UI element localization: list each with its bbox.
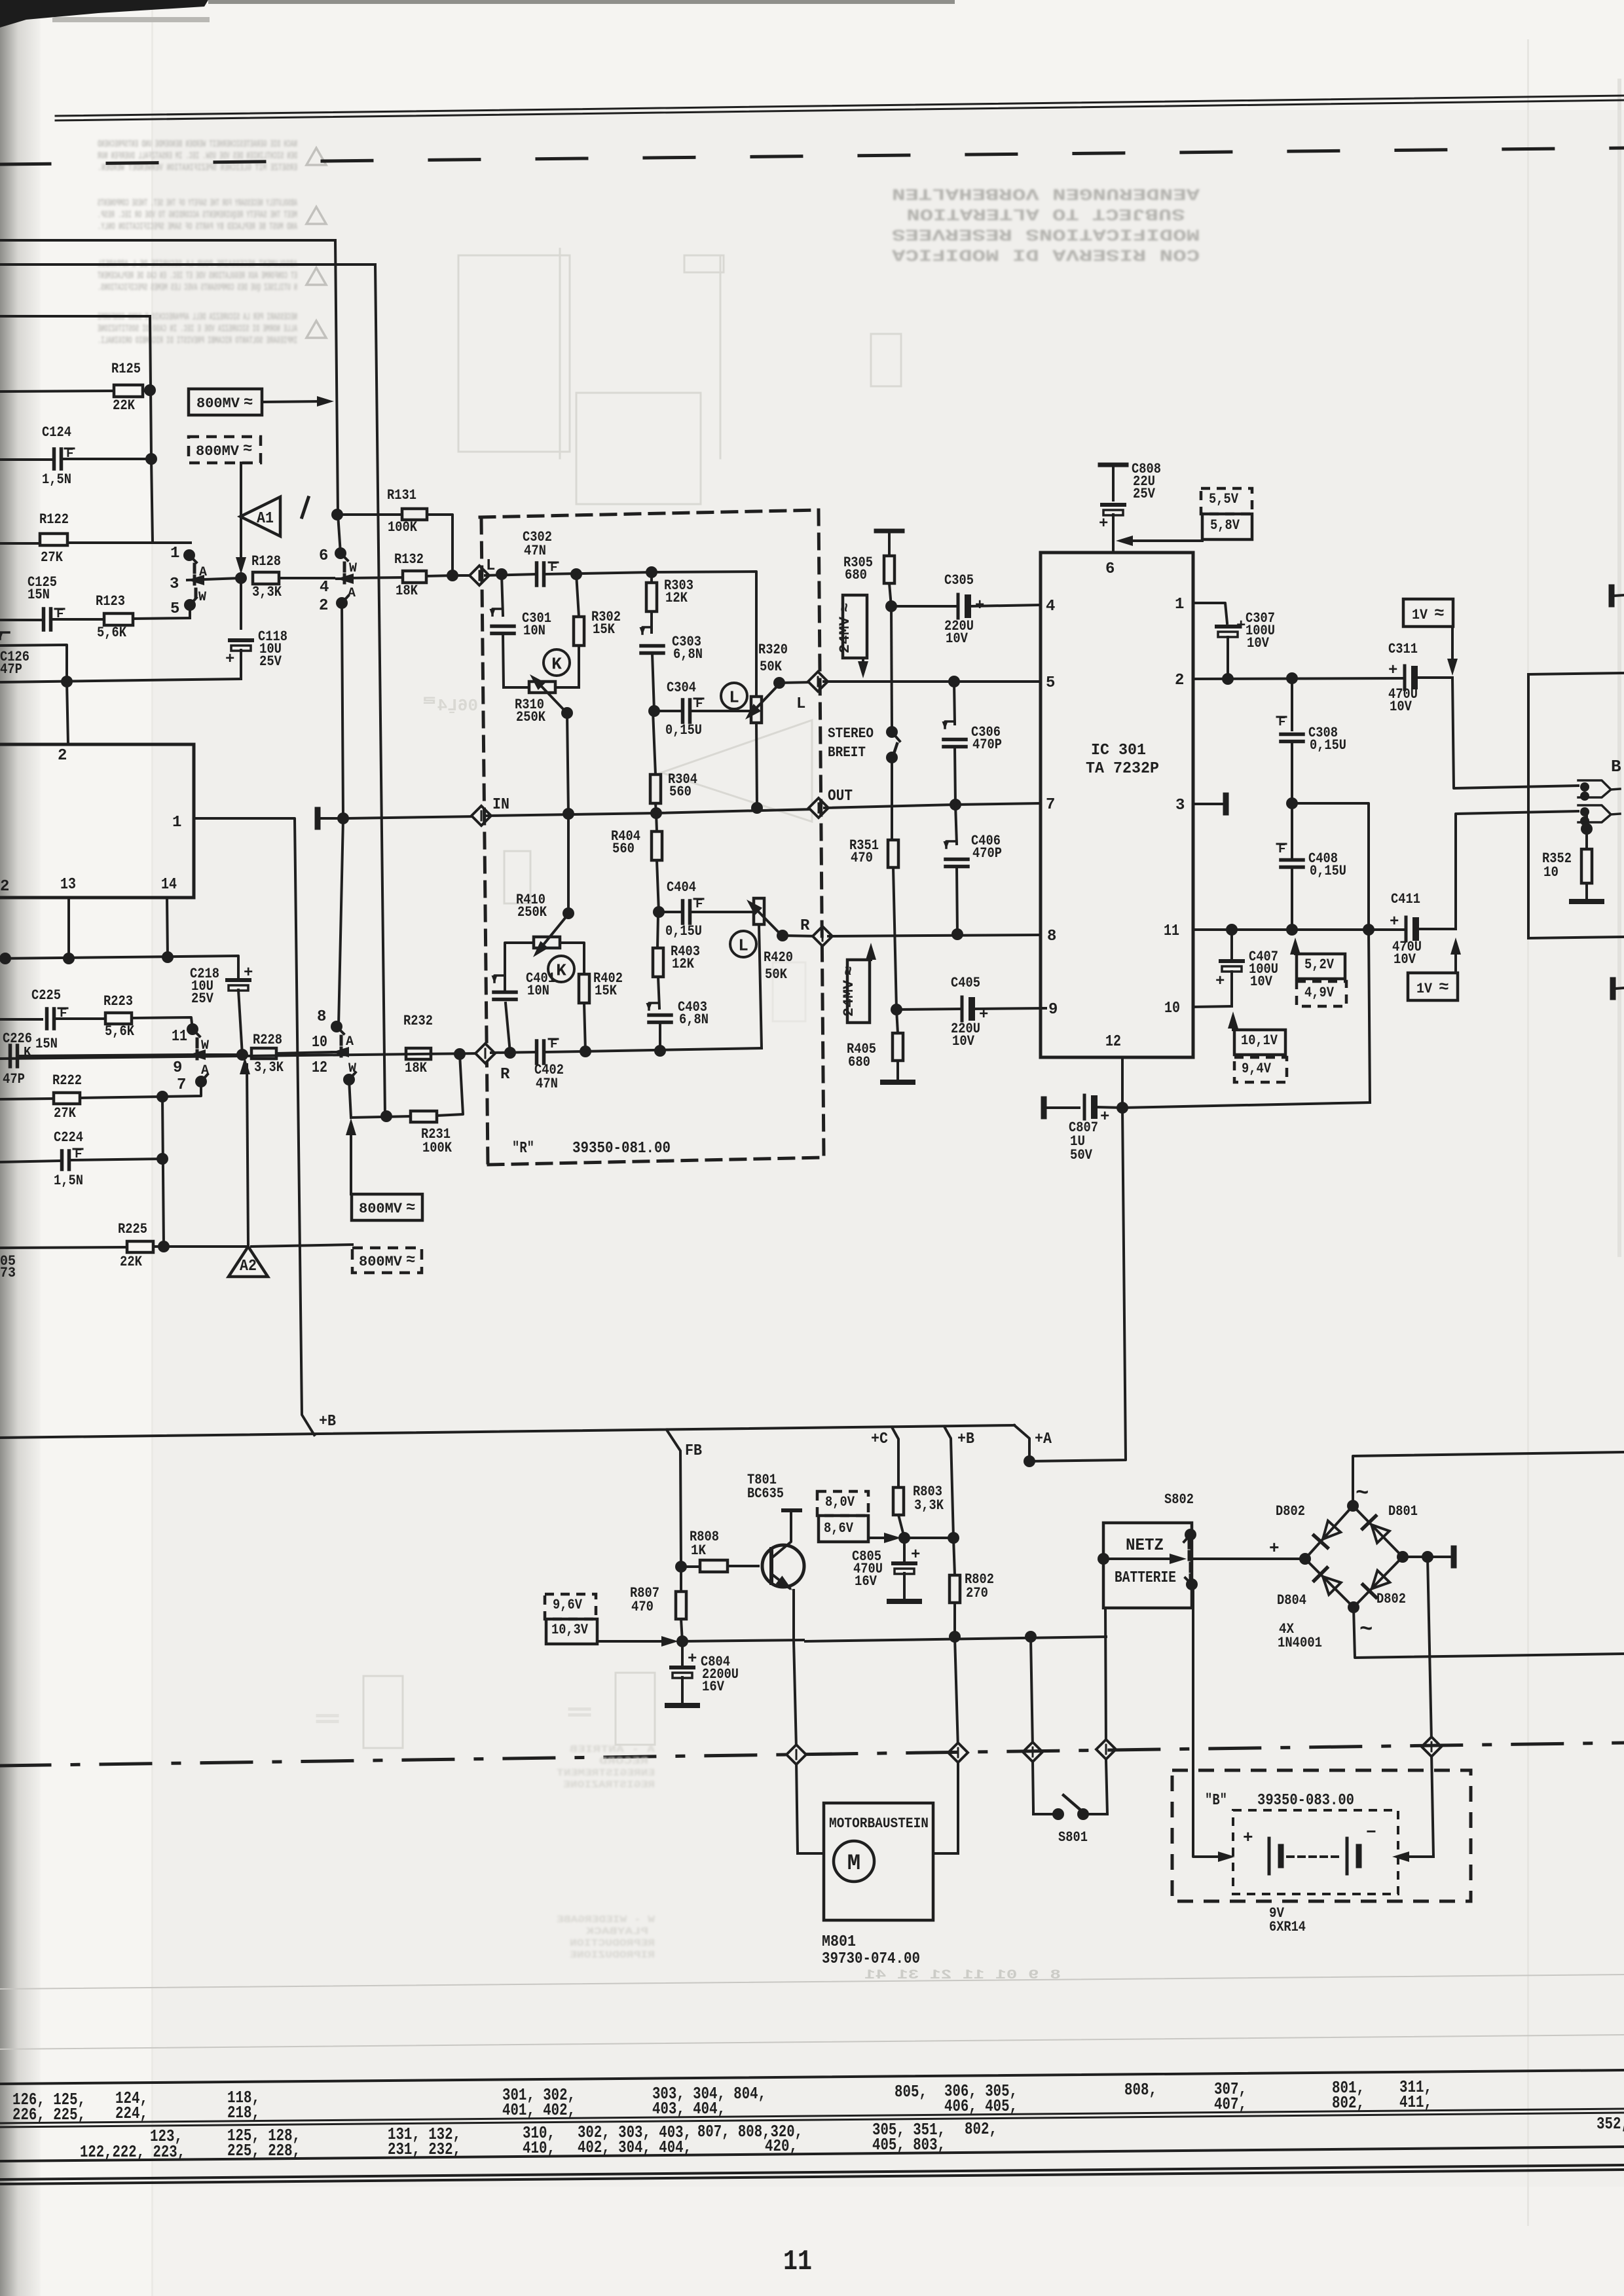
capacitor C804 (667, 1641, 739, 1705)
index row 3 (150, 2114, 1624, 2146)
svg-text:5,8V: 5,8V (1210, 517, 1240, 534)
node: C308/C408 mid (1286, 797, 1298, 809)
svg-text:+C: +C (871, 1430, 888, 1448)
svg-text:410,: 410, (523, 2138, 555, 2158)
capacitor C403 (646, 999, 709, 1051)
svg-text:18K: 18K (405, 1060, 428, 1076)
svg-text:15K: 15K (593, 621, 616, 638)
svg-text:3,3K: 3,3K (252, 584, 282, 600)
svg-text:REGISTRAZIONE: REGISTRAZIONE (563, 1779, 655, 1791)
svg-text:ALLE NORME DI SICUREZZA VDE E: ALLE NORME DI SICUREZZA VDE E IEC. IN CA… (98, 323, 297, 335)
svg-text:27K: 27K (41, 549, 64, 566)
svg-text:5,6K: 5,6K (97, 625, 127, 641)
svg-text:≈: ≈ (1439, 977, 1449, 997)
test box 1V (top) (1403, 599, 1458, 676)
svg-text:10V: 10V (946, 630, 969, 647)
svg-text:16V: 16V (702, 1679, 725, 1695)
svg-text:+: + (1099, 515, 1108, 533)
svg-text:560: 560 (612, 841, 635, 857)
svg-text:R223: R223 (103, 993, 133, 1010)
svg-text:OUT: OUT (828, 788, 853, 805)
svg-text:8: 8 (317, 1008, 326, 1026)
svg-text:10V: 10V (952, 1033, 975, 1049)
svg-text:CON RISERVA DI MODIFICA: CON RISERVA DI MODIFICA (892, 245, 1200, 264)
svg-text:IC 301: IC 301 (1091, 742, 1146, 759)
svg-text:"R": "R" (512, 1140, 534, 1157)
label C126 47P (0, 649, 29, 678)
svg-text:808,: 808, (1124, 2080, 1157, 2100)
module label "R" 39350-081.00 (512, 1140, 671, 1157)
svg-text:11: 11 (172, 1028, 187, 1046)
svg-text:403, 404,: 403, 404, (652, 2099, 726, 2119)
svg-text:27K: 27K (54, 1105, 77, 1121)
svg-text:1: 1 (1175, 596, 1184, 613)
test box 24MV (R) (841, 943, 876, 1023)
svg-text:10V: 10V (1250, 974, 1273, 990)
capacitor C807 (1044, 1095, 1122, 1163)
svg-text:50V: 50V (1070, 1147, 1093, 1163)
svg-text:R125: R125 (111, 361, 141, 377)
svg-text:ABSOLUTELY NECESSARY FOR THE S: ABSOLUTELY NECESSARY FOR THE SAFETY OF T… (98, 198, 297, 209)
svg-text:D802: D802 (1276, 1503, 1305, 1520)
svg-text:470: 470 (631, 1599, 654, 1615)
svg-text:250K: 250K (516, 709, 546, 725)
svg-text:≈: ≈ (841, 966, 858, 975)
svg-text:5: 5 (170, 600, 179, 618)
svg-text:800MV: 800MV (359, 1201, 403, 1217)
svg-text:8,6V: 8,6V (824, 1520, 854, 1537)
capacitor C407 (1193, 930, 1278, 1007)
svg-text:R320: R320 (758, 642, 788, 658)
svg-text:24MV: 24MV (837, 616, 853, 653)
IC U301 TA7232P (1041, 553, 1193, 1057)
wire: C126 entry (0, 632, 67, 682)
node: L line R131 junction (447, 570, 458, 581)
page number 11 (783, 2246, 812, 2278)
potentiometer R420 (747, 898, 793, 1048)
ghost mirrored legend text (557, 1744, 655, 1961)
node L (module boundary) (456, 557, 495, 585)
capacitor C808 (1099, 461, 1161, 553)
wire: pin1 to C307 (1193, 603, 1227, 623)
capacitor C218 (0, 951, 253, 1055)
svg-text:2: 2 (0, 878, 9, 896)
svg-text:−: − (1366, 1823, 1376, 1842)
svg-text:8 9 01 11 21 31 41: 8 9 01 11 21 31 41 (864, 1968, 1061, 1983)
wire: pin2 line (1193, 672, 1404, 685)
svg-text:401, 402,: 401, 402, (502, 2100, 576, 2120)
capacitor C311 (1388, 641, 1452, 715)
svg-text:N UTILISEZ QUE DES COMPOSANTS: N UTILISEZ QUE DES COMPOSANTS AVEC LES M… (98, 282, 297, 293)
diode D804 (bottom-left) (1314, 1568, 1341, 1595)
bridge rectifier wires (1305, 1506, 1403, 1607)
wire: IN/OUT line (347, 788, 1040, 826)
test box 800MV (solid, R) (346, 1118, 422, 1220)
resistor R222 (0, 1072, 201, 1121)
svg-text:C311: C311 (1388, 641, 1418, 657)
svg-text:≈: ≈ (406, 1199, 415, 1217)
node: C401 junction (504, 1047, 516, 1059)
svg-text:R128: R128 (251, 553, 281, 570)
label: off-page 05/73 (0, 1253, 16, 1281)
index rule 6 (dark double) (0, 2165, 1624, 2184)
resistor R304 (650, 711, 697, 813)
svg-text:12: 12 (312, 1059, 327, 1077)
svg-text:1K: 1K (691, 1542, 707, 1559)
wire: +C tap (871, 1427, 898, 1487)
svg-text:5,2V: 5,2V (1304, 957, 1335, 973)
svg-text:4,9V: 4,9V (1304, 985, 1335, 1001)
svg-text:10: 10 (312, 1034, 327, 1051)
resistor R803 (893, 1484, 944, 1538)
svg-text:1: 1 (172, 814, 181, 831)
wire: pin9 stub (1041, 1007, 1046, 1010)
svg-text:11: 11 (783, 2246, 812, 2278)
wire: L line (485, 572, 756, 697)
svg-text:8,0V: 8,0V (825, 1494, 855, 1510)
wire: +B branch to motor right (933, 1637, 958, 1853)
svg-text:3: 3 (1175, 797, 1185, 814)
wire: emitter down to motor (794, 1640, 824, 1853)
resistor R122 (0, 511, 191, 566)
amplifier A1 (236, 463, 280, 574)
svg-text:BREIT: BREIT (828, 744, 866, 761)
node pin4 line (885, 600, 897, 612)
ghost rotated stamp text (892, 184, 1200, 264)
potentiometer R410 (516, 892, 574, 957)
svg-text:+: + (1236, 617, 1246, 635)
test boxes 8,0V / 8,6V (817, 1491, 901, 1543)
svg-text:ENREGISTREMENT: ENREGISTREMENT (557, 1768, 655, 1779)
svg-text:2: 2 (1175, 672, 1184, 689)
svg-text:NETZ: NETZ (1126, 1535, 1164, 1555)
svg-text:25V: 25V (259, 653, 282, 670)
svg-text:218,: 218, (227, 2103, 260, 2123)
wire: top-left feed C (to R125 column) (0, 316, 153, 542)
switch STEREO/BREIT (828, 606, 900, 840)
svg-text:C304: C304 (667, 680, 696, 696)
svg-text:5,6K: 5,6K (105, 1023, 135, 1040)
node: R320 bottom junction (751, 802, 763, 814)
svg-text:D802: D802 (1376, 1591, 1406, 1607)
labels bridge (1276, 1482, 1418, 1651)
capacitor C405 (896, 975, 1046, 1049)
potentiometer R320 (745, 642, 788, 807)
svg-text:R232: R232 (403, 1013, 433, 1029)
svg-text:A - ANTRIEB: A - ANTRIEB (570, 1744, 655, 1755)
wire: top-left feed A (to 800MV node) (0, 240, 341, 553)
index rule 2 (0, 2035, 1624, 2049)
svg-text:24MV: 24MV (841, 979, 857, 1017)
svg-text:+: + (1390, 913, 1399, 931)
capacitor C406 (944, 805, 1003, 934)
svg-text:IN: IN (492, 796, 509, 814)
svg-text:800MV: 800MV (359, 1254, 403, 1270)
svg-text:L: L (729, 687, 739, 707)
svg-text:R: R (500, 1066, 510, 1084)
svg-text:R420: R420 (764, 949, 793, 966)
svg-text:L: L (738, 936, 748, 955)
svg-text:7: 7 (1046, 796, 1055, 814)
svg-text:12K: 12K (665, 590, 688, 606)
svg-text:R132: R132 (394, 551, 424, 568)
wire: C118 bottom line (0, 679, 241, 682)
transistor Q801 BC635 (747, 1472, 804, 1640)
svg-text:R131: R131 (387, 487, 416, 503)
label MOTORBAUSTEIN (829, 1815, 929, 1832)
node: common R junction (236, 1049, 248, 1061)
ghost pin numbers bottom (864, 1968, 1061, 1983)
svg-text:15K: 15K (595, 983, 618, 999)
svg-text:S802: S802 (1164, 1491, 1194, 1508)
svg-text:0,15U: 0,15U (665, 923, 702, 939)
capacitor C303 (640, 627, 703, 711)
index rule 5 (0, 2147, 1624, 2161)
svg-text:16V: 16V (855, 1573, 877, 1590)
index rule 1 (0, 1975, 1624, 1989)
boundary diamond (S801) (1023, 1742, 1043, 1762)
wire: C408 bypass loop (1292, 803, 1370, 1102)
svg-text:100K: 100K (388, 519, 418, 536)
switch box S802 NETZ/BATTERIE (1098, 1491, 1198, 1608)
wire: head common L to R132 (346, 577, 403, 578)
resistor R405 (847, 1010, 913, 1082)
wire: FB tap (667, 1430, 702, 1567)
IC preamp (partial, pins 1/2/13/14) (0, 744, 194, 898)
node: C403 junction (654, 1045, 666, 1057)
svg-text:ET CONFORME AUX REGULATIONS VD: ET CONFORME AUX REGULATIONS VDE ET IEC. … (98, 270, 297, 282)
resistor R228 (251, 1032, 332, 1076)
svg-text:5,5V: 5,5V (1209, 491, 1239, 507)
boundary diamond (emitter) (786, 1745, 806, 1764)
wire: return line right (1122, 1102, 1370, 1108)
svg-text:MOTORBAUSTEIN: MOTORBAUSTEIN (829, 1815, 929, 1832)
svg-text:K: K (556, 960, 566, 980)
wire: S801 to S802 box (1105, 1608, 1107, 1814)
resistor R808 (675, 1529, 758, 1573)
capacitor C304 (648, 680, 752, 738)
ghost mirrored warning paragraphs (98, 139, 326, 346)
node: C224 column junction (157, 1091, 168, 1247)
wire: +A tap (1014, 1425, 1052, 1467)
wire: R input line (0, 1044, 762, 1084)
svg-text:+: + (688, 1650, 697, 1668)
svg-text:+: + (1269, 1539, 1280, 1558)
resistor R231 (349, 1054, 463, 1156)
svg-text:AND MUST BE REPLACED BY PARTS: AND MUST BE REPLACED BY PARTS OF SAME SP… (98, 221, 297, 232)
svg-text:8: 8 (1047, 928, 1056, 945)
svg-text:13: 13 (60, 876, 76, 894)
wire: preamp pin14 (167, 898, 168, 957)
svg-text:C404: C404 (667, 879, 696, 896)
svg-text:R123: R123 (96, 593, 125, 610)
capacitor C411 (1390, 891, 1456, 968)
svg-text:10N: 10N (527, 983, 549, 999)
boundary diamond (netz) (1096, 1740, 1116, 1759)
svg-text:10V: 10V (1390, 699, 1412, 715)
svg-text:C411: C411 (1391, 891, 1420, 907)
svg-text:+: + (1388, 662, 1397, 680)
svg-text:3: 3 (170, 575, 179, 593)
svg-text:800MV: 800MV (196, 443, 240, 460)
svg-text:11: 11 (1164, 922, 1179, 940)
svg-text:L: L (796, 695, 805, 713)
wire: preamp pin13 (67, 898, 70, 958)
svg-text:"B": "B" (1205, 1792, 1227, 1810)
svg-text:1,5N: 1,5N (54, 1173, 83, 1189)
svg-text:+: + (911, 1546, 920, 1564)
svg-text:7: 7 (177, 1076, 186, 1094)
test boxes 9,6V / 10,3V (545, 1594, 678, 1647)
svg-text:S801: S801 (1058, 1829, 1088, 1846)
svg-text:6: 6 (1105, 560, 1115, 578)
resistor R131 (331, 487, 452, 575)
diode D802 (top-left) (1314, 1521, 1340, 1548)
resistor R132 (394, 551, 452, 599)
svg-text:A2: A2 (240, 1258, 257, 1275)
index rule 4 (double) (0, 2109, 1624, 2127)
svg-text:BATTERIE: BATTERIE (1115, 1569, 1176, 1587)
svg-text:680: 680 (845, 567, 867, 583)
wire: S802 pole to bridge (1192, 1539, 1305, 1559)
svg-text:+B: +B (319, 1413, 336, 1430)
wire: S801 branch (1031, 1637, 1052, 1814)
svg-text:407,: 407, (1214, 2094, 1247, 2114)
svg-text:1: 1 (170, 545, 179, 562)
index row 2 (12, 2092, 1432, 2124)
svg-text:1V: 1V (1416, 981, 1433, 997)
dash-dot boundary line top (0, 148, 1624, 164)
node: R402 junction (580, 1046, 591, 1057)
test box 800MV (solid) (189, 389, 334, 415)
svg-text:10N: 10N (523, 623, 545, 639)
svg-text:25V: 25V (191, 991, 214, 1007)
svg-text:10,3V: 10,3V (551, 1622, 589, 1638)
svg-text:MODIFICATIONS RESERVEES: MODIFICATIONS RESERVEES (892, 225, 1200, 244)
node: IN wiper junction (563, 808, 574, 820)
svg-text:BC635: BC635 (747, 1485, 784, 1502)
resistor R223 (103, 993, 193, 1040)
wire: L output to jack (1452, 678, 1578, 788)
svg-text:+: + (1100, 1108, 1109, 1126)
svg-text:TA 7232P: TA 7232P (1086, 760, 1159, 778)
test box 1V (bottom) (1408, 938, 1461, 1000)
wire: pin5 L out line (779, 672, 1040, 713)
resistor R404 (611, 813, 662, 912)
svg-text:RIPRODUZIONE: RIPRODUZIONE (570, 1950, 655, 1961)
resistor R225 (0, 1221, 352, 1270)
potentiometer R310 (504, 674, 579, 725)
svg-text:406, 405,: 406, 405, (944, 2096, 1018, 2116)
svg-text:6XR14: 6XR14 (1269, 1919, 1306, 1935)
wire: supply line to switch (805, 1631, 1106, 1643)
jack plug L (1578, 780, 1620, 801)
svg-text:DEN SICHTLINIEN DES VDE USW. I: DEN SICHTLINIEN DES VDE USW. IEC. IM ERS… (98, 151, 297, 162)
svg-text:≈: ≈ (244, 394, 253, 412)
bridge nodes (1299, 1500, 1409, 1613)
wire: pin12 down to +A (1029, 1057, 1128, 1461)
node pin9 line (891, 1004, 902, 1015)
svg-text:+B: +B (957, 1430, 974, 1448)
wire: contact2 to preamp pin1 net (339, 603, 343, 1026)
svg-text:10V: 10V (1247, 635, 1270, 651)
label "B" 39350-083.00 (1205, 1792, 1354, 1810)
svg-text:50K: 50K (760, 659, 783, 675)
adjust circle L (bottom) (730, 931, 756, 957)
svg-text:800MV: 800MV (196, 395, 240, 412)
svg-text:L: L (486, 557, 495, 575)
wire: R output to jack (1456, 811, 1578, 929)
svg-text:5: 5 (1046, 674, 1055, 692)
svg-text:3,3K: 3,3K (254, 1059, 284, 1076)
ground R305 (876, 531, 902, 556)
wire: DC minus to tick and battery (1392, 1548, 1454, 1862)
svg-text:25V: 25V (1133, 486, 1156, 502)
svg-text:~: ~ (1356, 1482, 1369, 1506)
wire: pin3 stub and tick (1193, 795, 1226, 812)
svg-text:K: K (551, 654, 562, 674)
node R (module boundary) (783, 917, 832, 946)
wire: top-left feed B (long vertical to R231) (0, 264, 385, 1116)
module boundary box "R" 39350-081.00 (dashed) (480, 510, 824, 1165)
svg-text:C226: C226 (3, 1030, 32, 1047)
capacitor C805 (852, 1538, 920, 1601)
svg-text:A: A (346, 1034, 354, 1049)
capacitor C125 (0, 574, 104, 630)
node: C306 junction OUT (950, 799, 961, 811)
capacitor C308 (1277, 678, 1346, 803)
svg-text:≈: ≈ (406, 1252, 415, 1269)
svg-text:C225: C225 (31, 987, 61, 1004)
adjust circle L (top) (721, 683, 747, 709)
label +B (319, 1413, 336, 1430)
svg-text:47P: 47P (3, 1071, 25, 1087)
wire: R310 wiper to IN (567, 713, 568, 813)
resistor R303 (646, 566, 693, 632)
resistor R351 (849, 837, 898, 1010)
svg-text:100K: 100K (422, 1140, 452, 1156)
resistor R305 (843, 555, 895, 606)
capacitor C301 (490, 574, 552, 687)
capacitor C307 (1217, 610, 1275, 679)
svg-text:R122: R122 (39, 511, 69, 528)
svg-text:W - WIEDERGABE: W - WIEDERGABE (557, 1914, 655, 1925)
capacitor C305 (891, 572, 1040, 647)
svg-text:≈: ≈ (243, 441, 252, 458)
wire: preamp pin1 to +B drop (194, 818, 314, 1435)
svg-text:4: 4 (320, 579, 329, 596)
svg-text:470P: 470P (972, 737, 1002, 753)
wire: AC bottom to page edge (1354, 1607, 1624, 1658)
svg-text:A1: A1 (257, 510, 274, 528)
connector tick right top (1612, 587, 1624, 604)
svg-text:1,5N: 1,5N (42, 471, 71, 488)
double rule top (56, 96, 1624, 120)
svg-text:06Ḻ4ᄅ: 06Ḻ4ᄅ (422, 696, 478, 716)
svg-text:B: B (1611, 757, 1621, 776)
svg-text:+: + (244, 964, 253, 982)
svg-text:2: 2 (58, 747, 67, 765)
resistor R123 (96, 593, 190, 641)
svg-text:12: 12 (1105, 1033, 1121, 1051)
svg-text:1V: 1V (1412, 607, 1428, 623)
stray pen mark (302, 498, 308, 517)
connector tick pin1 (318, 810, 349, 827)
svg-text:12K: 12K (672, 956, 695, 972)
svg-text:W: W (198, 590, 206, 605)
svg-text:224,: 224, (115, 2104, 148, 2123)
svg-text:+: + (1215, 973, 1225, 991)
